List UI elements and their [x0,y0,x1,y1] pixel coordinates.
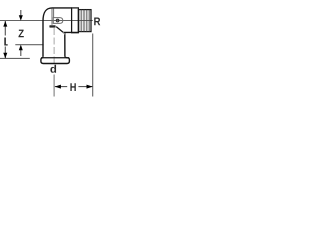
thread body [78,10,91,32]
background [0,0,101,101]
dimension Z arrow top (outside) [20,10,22,17]
collar (nut band) [72,8,79,33]
extension line middle (Z bottom) [15,44,43,46]
inner hidden diagonal [63,32,65,34]
label d [50,65,56,73]
dimension l line [4,21,6,58]
extension line H right [92,34,94,97]
bead top line [41,57,69,59]
body outline: left wall + corner arc + top edge [43,8,72,56]
press bead [41,56,70,63]
label Z [18,30,23,38]
dimension H arrow right [87,85,93,89]
label R [94,17,100,25]
inner foot bar [49,25,55,27]
crotch diagonal [56,27,63,32]
o-ring circle [56,19,59,22]
dimension H arrow left [55,85,61,89]
inner gray vertical line 2 [53,9,55,18]
dimension Z arrow bottom (outside) [20,50,22,56]
label l [4,38,7,46]
centerline thread axis [0,20,93,22]
thread hatch lines [80,10,90,32]
dimension l arrow top [3,21,7,27]
extension line bottom-left (l bottom) [0,57,30,59]
lollipop (nipple section) [53,18,63,24]
label H [70,83,75,91]
centerline socket axis [53,28,55,97]
inner gray vertical line 1 [51,9,53,25]
dimension H line [55,86,93,88]
dimension l arrow bottom [3,53,7,59]
shoulder under collar [63,32,79,56]
